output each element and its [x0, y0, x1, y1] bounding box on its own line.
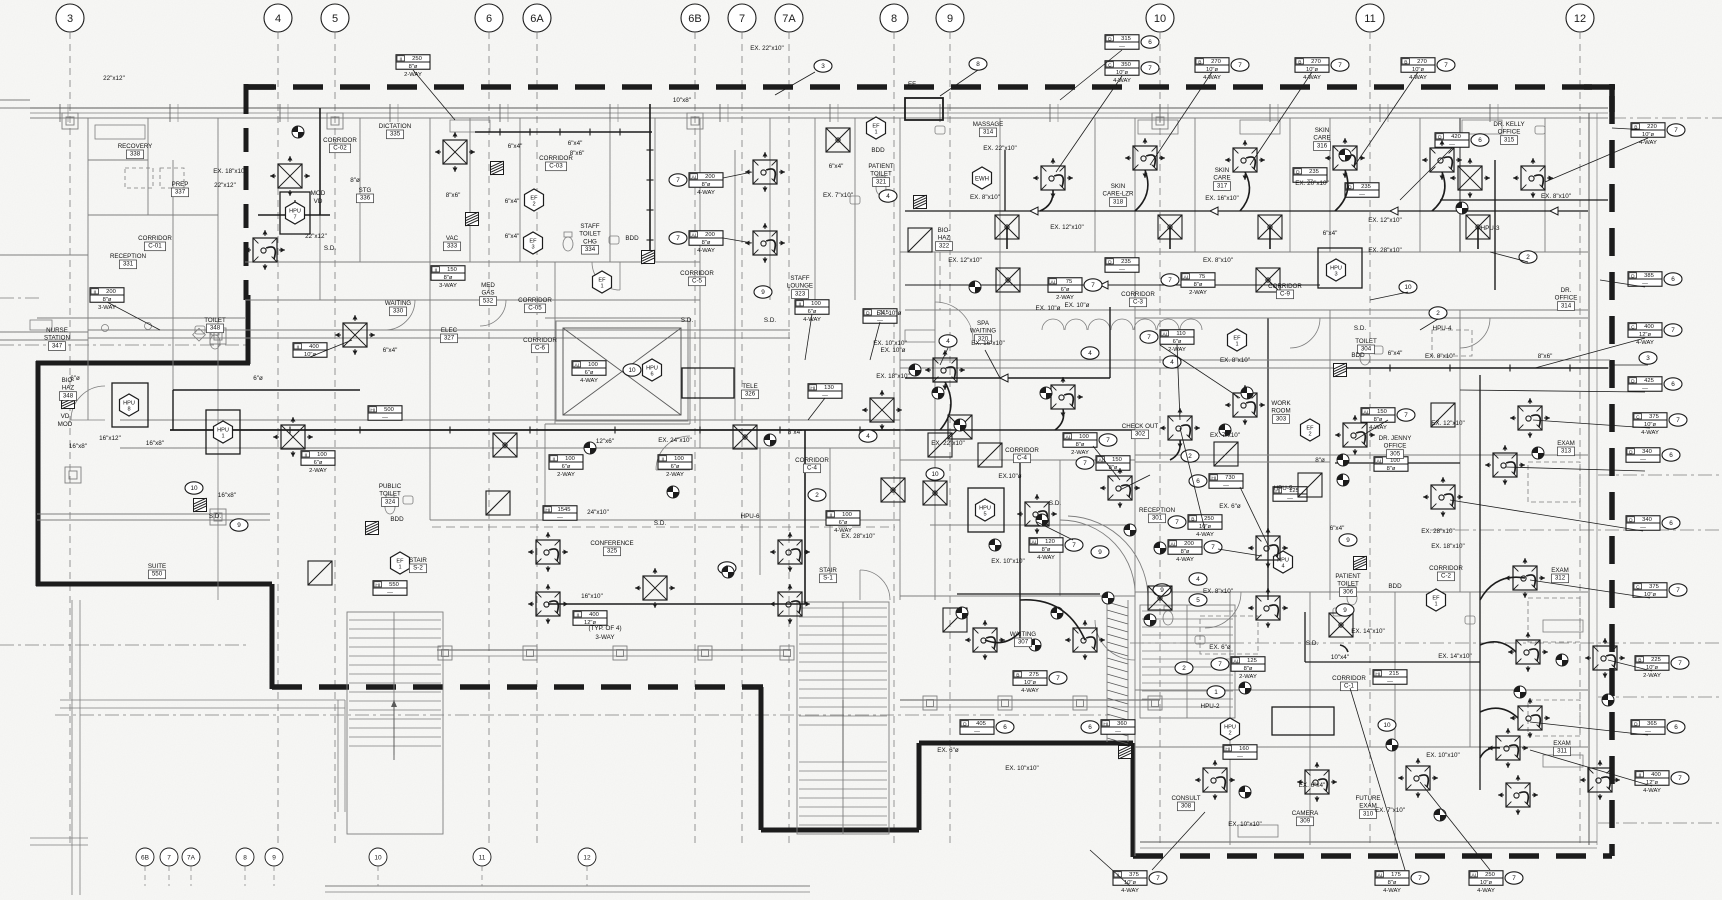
svg-text:STAFF: STAFF [580, 223, 599, 230]
svg-text:6"x4": 6"x4" [1330, 525, 1345, 532]
svg-text:335: 335 [390, 131, 401, 138]
duct main corridor right y378 [905, 377, 1110, 379]
supply diffuser [1333, 146, 1357, 170]
supply diffuser [1516, 640, 1540, 664]
grid bubble 6B [681, 4, 709, 32]
flex duct [1055, 409, 1064, 430]
callout balloon 7 [1231, 59, 1249, 71]
grid line 3 [69, 32, 71, 845]
grid bubble 9 [936, 4, 964, 32]
svg-text:7: 7 [1444, 62, 1448, 69]
door swing [1290, 318, 1320, 348]
svg-text:—: — [1449, 142, 1455, 148]
svg-text:EX. 22"x10": EX. 22"x10" [931, 440, 965, 447]
grid line 7A [788, 32, 790, 845]
svg-text:3: 3 [1334, 272, 1337, 278]
svg-text:6"ø: 6"ø [70, 375, 80, 382]
svg-text:B: B [1638, 657, 1641, 663]
callout balloon 4 [879, 190, 897, 202]
svg-text:SPA: SPA [977, 320, 990, 327]
svg-text:16"x10": 16"x10" [581, 593, 603, 600]
equipment hexagon EF-2 [525, 189, 544, 211]
duct dr jenny y463 [1335, 462, 1460, 464]
supply diffuser [753, 160, 777, 184]
svg-text:C: C [1636, 584, 1640, 590]
svg-text:314: 314 [1561, 302, 1572, 309]
grid line 7 [741, 32, 743, 845]
grid line 6 [488, 32, 490, 845]
column marker [523, 646, 537, 660]
svg-text:CHECK OUT: CHECK OUT [1122, 423, 1159, 430]
flex duct [1020, 600, 1085, 640]
svg-text:C-4: C-4 [1017, 455, 1028, 462]
svg-text:D: D [866, 310, 870, 316]
svg-text:318: 318 [1113, 198, 1124, 205]
svg-text:CORRIDOR: CORRIDOR [1005, 447, 1039, 454]
supply diffuser [1133, 146, 1157, 170]
svg-text:EX. 10"ø: EX. 10"ø [877, 310, 902, 317]
exhaust grille [923, 481, 947, 505]
callout balloon 7 [1664, 324, 1682, 336]
flex duct [1432, 172, 1445, 211]
svg-text:D: D [1438, 134, 1442, 140]
callout balloon 7 [1397, 409, 1415, 421]
duct tag AI 100 8"ø [1374, 457, 1408, 472]
stair arrow S-1 [842, 700, 844, 770]
svg-text:AI: AI [1378, 872, 1383, 878]
door swing [935, 302, 973, 340]
supply diffuser [1233, 148, 1257, 172]
svg-text:2-WAY: 2-WAY [1643, 673, 1661, 679]
grid line 8 [893, 32, 895, 845]
duct tag D 235 — [1345, 183, 1379, 198]
flex duct [1135, 170, 1148, 211]
callout balloon 10 [185, 482, 203, 494]
equipment box HPU-7 [280, 192, 310, 234]
svg-text:WAITING: WAITING [1010, 631, 1036, 638]
svg-text:11: 11 [1364, 13, 1375, 25]
svg-text:7: 7 [1676, 587, 1680, 594]
svg-text:5: 5 [983, 512, 986, 518]
stair arrow S-2 [393, 700, 395, 760]
heavy wall y743 [919, 741, 1133, 746]
svg-text:C-05: C-05 [528, 305, 542, 312]
svg-text:AI: AI [1184, 274, 1189, 280]
svg-text:HI: HI [370, 407, 375, 413]
grid bubble 8 [236, 848, 254, 866]
svg-text:EX. 16"x10": EX. 16"x10" [1205, 195, 1239, 202]
svg-text:MED: MED [481, 282, 495, 289]
svg-text:6"ø: 6"ø [585, 370, 594, 376]
svg-text:—: — [1237, 754, 1243, 760]
lower grid leader 10 [377, 866, 379, 886]
svg-text:9: 9 [1343, 607, 1347, 614]
svg-text:II: II [399, 56, 402, 62]
svg-text:—: — [1287, 496, 1293, 502]
callout balloon 7 [1671, 657, 1689, 669]
fire damper [366, 521, 379, 535]
svg-text:10"ø: 10"ø [1644, 422, 1657, 428]
callout balloon 2 [1181, 450, 1199, 462]
svg-text:CORRIDOR: CORRIDOR [795, 457, 829, 464]
svg-text:4-WAY: 4-WAY [1203, 75, 1221, 81]
svg-text:7: 7 [1678, 775, 1682, 782]
svg-text:RECOVERY: RECOVERY [118, 143, 153, 150]
svg-text:D: D [1629, 449, 1633, 455]
svg-text:7: 7 [676, 177, 680, 184]
svg-text:—: — [1387, 679, 1393, 685]
svg-text:730: 730 [1225, 475, 1235, 481]
svg-text:II: II [829, 512, 832, 518]
svg-text:AI: AI [575, 362, 580, 368]
duct ex spa [905, 284, 1320, 286]
svg-text:375: 375 [1649, 414, 1659, 420]
duct tag II 100 6"ø [658, 455, 692, 470]
grid bubble 6A [523, 4, 551, 32]
svg-text:HPU-6: HPU-6 [741, 513, 760, 520]
south exterior wall conference [437, 649, 790, 651]
svg-text:CAMERA: CAMERA [1292, 810, 1319, 817]
callout balloon 5 [1189, 594, 1207, 606]
callout balloon 10 [1399, 281, 1417, 293]
svg-text:4-WAY: 4-WAY [1196, 532, 1214, 538]
equipment box HPU-1 [206, 410, 240, 454]
fire damper [491, 161, 504, 175]
svg-text:235: 235 [1309, 169, 1319, 175]
elevator X [563, 328, 681, 415]
svg-text:3: 3 [821, 63, 825, 70]
supply diffuser [1256, 596, 1280, 620]
svg-text:250: 250 [412, 56, 422, 62]
svg-text:4-WAY: 4-WAY [1176, 557, 1194, 563]
flex duct [1480, 642, 1516, 652]
supply diffuser [1588, 768, 1612, 792]
svg-text:S.D.: S.D. [1049, 500, 1061, 507]
svg-text:2-WAY: 2-WAY [557, 472, 575, 478]
svg-text:323: 323 [795, 290, 806, 297]
column marker [1073, 696, 1087, 710]
svg-text:HI: HI [1211, 475, 1216, 481]
svg-text:308: 308 [1181, 803, 1192, 810]
duct tag AI 200 8"ø [689, 231, 723, 246]
duct tag B 225 10"ø [1635, 656, 1669, 671]
svg-text:EX. 7"x10": EX. 7"x10" [1210, 432, 1240, 439]
svg-text:—: — [974, 729, 980, 735]
svg-text:C-4: C-4 [807, 465, 818, 472]
balancing damper [667, 486, 679, 498]
svg-text:7: 7 [1056, 675, 1060, 682]
balancing damper [909, 364, 921, 376]
svg-text:STG: STG [359, 187, 372, 194]
fire damper [1119, 745, 1132, 759]
svg-text:350: 350 [1121, 62, 1131, 68]
svg-text:CONFERENCE: CONFERENCE [590, 540, 633, 547]
svg-text:3: 3 [531, 245, 534, 251]
svg-text:D: D [1631, 378, 1635, 384]
supply diffuser [1430, 148, 1454, 172]
supply diffuser [1431, 485, 1455, 509]
duct tag HI 215 — [1373, 670, 1407, 685]
svg-text:8: 8 [127, 407, 130, 413]
svg-text:CORRIDOR: CORRIDOR [323, 137, 357, 144]
svg-text:8"ø: 8"ø [1388, 880, 1397, 886]
svg-text:AI: AI [1234, 658, 1239, 664]
callout balloon 3 [1639, 352, 1657, 364]
balancing damper [1456, 202, 1468, 214]
svg-text:4-WAY: 4-WAY [1121, 888, 1139, 894]
svg-text:PATIENT: PATIENT [868, 163, 893, 170]
svg-text:II: II [552, 456, 555, 462]
flex duct [1240, 172, 1249, 211]
svg-text:309: 309 [1300, 818, 1311, 825]
svg-text:EX. 8"x10": EX. 8"x10" [970, 194, 1000, 201]
callout balloon 7 [1140, 331, 1158, 343]
callout balloon 7 [1084, 279, 1102, 291]
svg-text:HAZ: HAZ [62, 385, 75, 392]
svg-text:375: 375 [1649, 584, 1659, 590]
reference line [55, 714, 1110, 716]
balancing damper [1337, 474, 1349, 486]
svg-text:4: 4 [946, 338, 950, 345]
svg-text:250: 250 [1485, 872, 1495, 878]
svg-text:4-WAY: 4-WAY [1477, 888, 1495, 894]
svg-text:WAITING: WAITING [385, 300, 411, 307]
svg-text:6"ø: 6"ø [253, 375, 263, 382]
svg-text:CARE: CARE [1213, 175, 1230, 182]
svg-text:7A: 7A [782, 13, 796, 25]
balancing damper [1144, 614, 1156, 626]
svg-text:—: — [1223, 483, 1229, 489]
svg-text:EX. 8"x10": EX. 8"x10" [1203, 257, 1233, 264]
column marker [65, 467, 81, 483]
grid bubble 3 [56, 4, 84, 32]
svg-text:10: 10 [190, 485, 198, 492]
callout balloon 6 [1189, 475, 1207, 487]
grid bubble 12 [1566, 4, 1594, 32]
svg-text:8"ø: 8"ø [1181, 549, 1190, 555]
svg-text:375: 375 [1129, 872, 1139, 878]
svg-text:10"ø: 10"ø [1412, 67, 1425, 73]
duct tag C 400 12"ø [1628, 323, 1662, 338]
callout balloon 2 [1519, 251, 1537, 263]
svg-text:100: 100 [811, 301, 821, 307]
equipment box HPU-5 [968, 488, 1004, 532]
svg-text:313: 313 [1561, 448, 1572, 455]
supply diffuser [778, 592, 802, 616]
equipment box HPU-8 [112, 383, 148, 427]
callout balloon 7 [1149, 872, 1167, 884]
balancing damper [1241, 387, 1253, 399]
flex duct [1170, 440, 1180, 460]
balancing damper [989, 539, 1001, 551]
svg-text:100: 100 [588, 362, 598, 368]
svg-text:EX. 10"x10": EX. 10"x10" [1426, 752, 1460, 759]
equipment hexagon EF-1 [867, 117, 886, 139]
svg-text:270: 270 [1211, 59, 1221, 65]
heavy dashed south edge middle [272, 684, 763, 690]
svg-text:100: 100 [565, 456, 575, 462]
column marker [698, 646, 712, 660]
duct tag II 400 12"ø [573, 611, 607, 626]
svg-text:1: 1 [874, 130, 877, 136]
svg-text:1: 1 [1235, 342, 1238, 348]
svg-text:TOILET: TOILET [870, 171, 892, 178]
svg-text:5: 5 [1196, 597, 1200, 604]
svg-text:II: II [661, 456, 664, 462]
svg-text:120: 120 [1045, 539, 1055, 545]
exhaust main skin care rooms [905, 210, 1588, 212]
svg-text:CORRIDOR: CORRIDOR [680, 270, 714, 277]
svg-text:CONSULT: CONSULT [1171, 795, 1200, 802]
svg-text:10"ø: 10"ø [1642, 132, 1655, 138]
equipment hexagon HPU-6 [643, 359, 662, 381]
svg-text:VD: VD [61, 413, 70, 420]
suite 550 heavy wall south [36, 582, 272, 587]
supply diffuser [536, 592, 560, 616]
svg-text:2-WAY: 2-WAY [1071, 450, 1089, 456]
callout balloon 9 [230, 519, 248, 531]
svg-text:S.D.: S.D. [209, 513, 221, 520]
svg-text:2: 2 [1228, 731, 1231, 737]
south exterior wall waiting [900, 699, 1160, 701]
svg-text:2: 2 [532, 202, 535, 208]
svg-text:EX. 16"x10": EX. 16"x10" [971, 340, 1005, 347]
svg-text:2: 2 [1188, 453, 1192, 460]
grid bubble 7 [728, 4, 756, 32]
fire damper [1334, 363, 1347, 377]
svg-text:160: 160 [1239, 746, 1249, 752]
svg-text:6: 6 [1003, 724, 1007, 731]
perimeter corner top-right [1584, 84, 1615, 90]
svg-text:—: — [1642, 386, 1648, 392]
svg-text:100: 100 [1390, 458, 1400, 464]
svg-text:9: 9 [272, 854, 276, 861]
svg-text:HI: HI [1225, 746, 1230, 752]
svg-text:2-WAY: 2-WAY [666, 472, 684, 478]
svg-text:3-WAY: 3-WAY [439, 283, 457, 289]
reference line [1598, 474, 1722, 476]
svg-text:S.D.: S.D. [1306, 640, 1318, 647]
equipment hexagon EF-1 [1427, 589, 1446, 611]
svg-text:1: 1 [1214, 689, 1218, 696]
flex duct [1335, 170, 1348, 211]
svg-text:AI: AI [692, 174, 697, 180]
svg-text:10: 10 [1383, 722, 1391, 729]
svg-text:DICTATION: DICTATION [379, 123, 411, 130]
supply diffuser [253, 238, 277, 262]
fire damper [914, 195, 927, 209]
svg-text:6A: 6A [530, 13, 544, 25]
return grille [908, 228, 932, 252]
reception desk arc [1060, 520, 1135, 600]
duct drop to HPU-7 [294, 200, 296, 215]
svg-text:10: 10 [1404, 284, 1412, 291]
exhaust grille [881, 478, 905, 502]
window mullions north wall [59, 104, 61, 122]
duct tag II 100 6"ø [826, 511, 860, 526]
svg-text:—: — [1359, 192, 1365, 198]
svg-text:425: 425 [1644, 378, 1654, 384]
svg-text:8"ø: 8"ø [1076, 442, 1085, 448]
equipment hexagon HPU-7 [286, 202, 305, 224]
stair right wing rail [1186, 605, 1188, 718]
svg-text:C-1: C-1 [1344, 683, 1355, 690]
balancing damper [954, 419, 966, 431]
svg-text:8"x6": 8"x6" [570, 150, 585, 157]
svg-text:4-WAY: 4-WAY [697, 248, 715, 254]
svg-text:8"x4": 8"x4" [788, 429, 803, 436]
balancing damper [1036, 514, 1048, 526]
svg-text:EX. 12"x10": EX. 12"x10" [1431, 420, 1465, 427]
column marker [438, 646, 452, 660]
duct tag AI 110 6"ø [1160, 330, 1194, 345]
svg-text:D: D [1634, 721, 1638, 727]
svg-text:AI: AI [1171, 541, 1176, 547]
grid line 12 [1579, 32, 1581, 845]
svg-text:—: — [382, 415, 388, 421]
supply diffuser [1025, 502, 1049, 526]
svg-text:EX. 12"x10": EX. 12"x10" [1050, 224, 1084, 231]
heavy wall y830 [761, 828, 919, 833]
duct tag II 375 10"ø [1113, 871, 1147, 886]
svg-text:7: 7 [1091, 282, 1095, 289]
stair right wing [1140, 605, 1235, 718]
column marker [62, 113, 78, 129]
callout balloon 2 [1429, 307, 1447, 319]
svg-text:II: II [434, 267, 437, 273]
svg-text:336: 336 [360, 195, 371, 202]
svg-text:STAIR: STAIR [819, 567, 837, 574]
svg-text:HI: HI [1375, 671, 1380, 677]
svg-text:347: 347 [52, 342, 63, 349]
svg-text:D: D [1296, 169, 1300, 175]
svg-text:C-01: C-01 [148, 243, 162, 250]
svg-text:3: 3 [67, 13, 73, 25]
reference line [1598, 696, 1722, 698]
svg-text:CARE-LZR: CARE-LZR [1103, 191, 1134, 198]
svg-text:D: D [1629, 517, 1633, 523]
svg-text:7: 7 [1148, 65, 1152, 72]
svg-text:C-5: C-5 [692, 278, 703, 285]
fire damper [466, 212, 479, 226]
svg-text:EX. 22"x10": EX. 22"x10" [983, 145, 1017, 152]
svg-text:7: 7 [1512, 875, 1516, 882]
svg-text:CORRIDOR: CORRIDOR [138, 235, 172, 242]
callout balloon 7 [1331, 59, 1349, 71]
svg-text:EX. 7"x10": EX. 7"x10" [823, 192, 853, 199]
svg-text:10"ø: 10"ø [1124, 880, 1137, 886]
svg-text:340: 340 [1642, 517, 1652, 523]
svg-text:S-2: S-2 [413, 565, 423, 572]
flex duct [1480, 708, 1518, 718]
duct tag HI 130 — [808, 384, 842, 399]
svg-text:22"x12": 22"x12" [103, 75, 125, 82]
balancing damper [1386, 739, 1398, 751]
equipment hexagon HPU-2 [1221, 718, 1240, 740]
duct tag D 425 — [1628, 377, 1662, 392]
svg-text:4-WAY: 4-WAY [580, 378, 598, 384]
exhaust grille [1258, 215, 1282, 239]
svg-text:BDD: BDD [871, 147, 885, 154]
callout balloon 7 [1065, 539, 1083, 551]
door swing [656, 436, 690, 470]
svg-text:338: 338 [130, 151, 141, 158]
svg-text:STATION: STATION [44, 335, 70, 342]
svg-text:6"x4": 6"x4" [1323, 230, 1338, 237]
svg-text:8"ø: 8"ø [350, 177, 360, 184]
svg-text:DR. KELLY: DR. KELLY [1493, 121, 1524, 128]
heavy wall vertical x1133 [1131, 743, 1136, 857]
